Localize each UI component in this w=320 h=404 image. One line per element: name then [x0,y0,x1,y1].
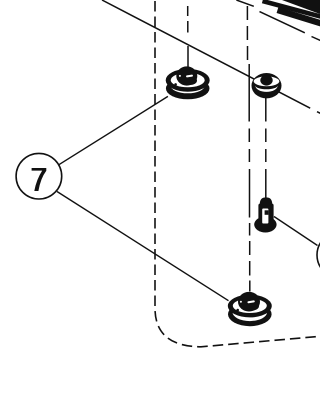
wire thin plate lower edge [260,12,305,33]
wire plate stripe B [278,10,320,24]
wire axis of foot F1 solid part [187,46,189,67]
wire leader line from balloon 7 to bottom foot [57,192,229,301]
node dashed device outline [155,1,320,347]
wire thin plate lower edge dash [312,37,320,41]
wire leader line from screw to right balloon [274,217,318,246]
wire axis line of bottom foot assembly [247,6,249,292]
wire small top segment [236,0,253,6]
label 7 [32,168,47,191]
grommet G2 (rubber washer) [252,73,282,98]
wire plate stripe A [263,1,320,17]
balloon partial circle at right edge [317,232,320,278]
node top-right black wedge plate edge [282,0,320,14]
wire leader line from balloon 7 to foot F1 [58,96,168,165]
balloon callout circle 7 [16,153,62,199]
wire axis of foot F1 dashed part [187,6,189,33]
foot F1 (grommet with screw head) [166,66,210,99]
wire axis grommet-to-screw [265,97,267,198]
wire long diagonal edge line [102,0,310,108]
bottom foot F3 (grommet with screw head) [228,292,272,326]
screw S1 [254,197,276,232]
wire hidden continuation dash of diagonal edge [317,112,320,114]
